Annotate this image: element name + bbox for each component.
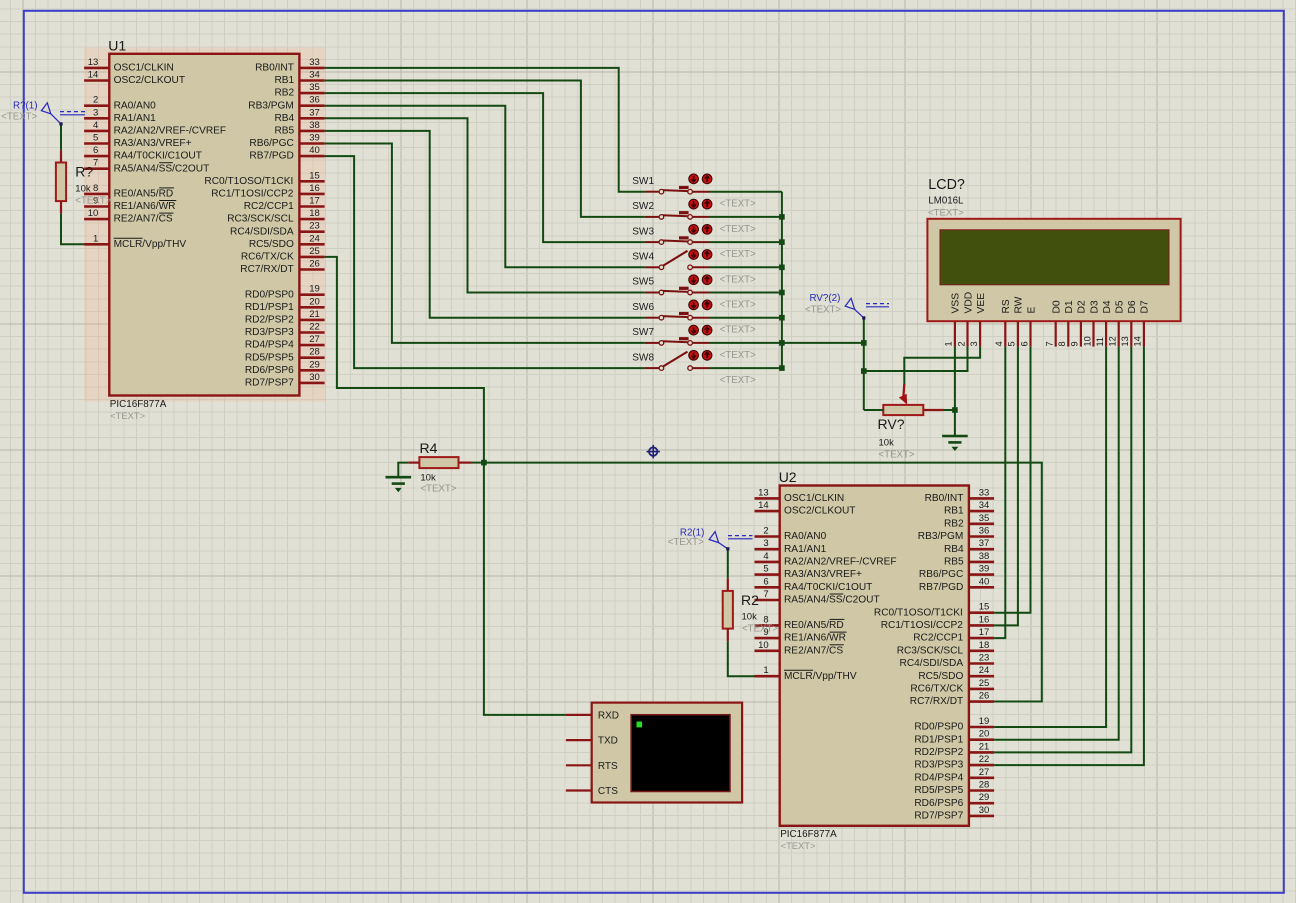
LCD pin 5 RW bbox=[1007, 296, 1025, 346]
wire LCD D7 to U2 RD3 bbox=[994, 347, 1144, 765]
svg-text:7: 7 bbox=[93, 158, 98, 169]
svg-text:27: 27 bbox=[979, 767, 990, 778]
svg-text:39: 39 bbox=[309, 133, 320, 144]
svg-text:SW5: SW5 bbox=[632, 277, 654, 288]
U1 pin 17 RC2/CCP1 bbox=[244, 196, 325, 213]
selection highlight around U1 bbox=[84, 48, 326, 402]
junction bus SW6 bbox=[779, 315, 785, 321]
U1 pin 20 RD1/PSP1 bbox=[245, 296, 325, 313]
U1 pin 40 RB7/PGD bbox=[249, 145, 324, 162]
svg-text:SW7: SW7 bbox=[632, 327, 654, 338]
svg-text:RB4: RB4 bbox=[944, 544, 964, 555]
svg-text:RC7/RX/DT: RC7/RX/DT bbox=[240, 264, 293, 275]
svg-text:<TEXT>: <TEXT> bbox=[420, 484, 456, 495]
svg-text:<TEXT>: <TEXT> bbox=[720, 350, 756, 361]
junction bus SW8 bbox=[779, 365, 785, 371]
svg-text:D5: D5 bbox=[1115, 300, 1126, 313]
wire resistor R2 bottom to U2 MCLR pin 1 bbox=[728, 641, 755, 676]
U1 pin 30 RD7/PSP7 bbox=[245, 372, 325, 389]
LCD pin 1 VSS bbox=[944, 293, 962, 347]
junction bus SW2 bbox=[779, 214, 785, 220]
wire R4 left to ground bbox=[398, 463, 408, 478]
svg-text:RE1/AN6/WR: RE1/AN6/WR bbox=[784, 633, 846, 644]
wire bus to RV? node bbox=[782, 342, 864, 344]
terminal pin TXD bbox=[566, 736, 618, 747]
svg-text:RD0/PSP0: RD0/PSP0 bbox=[245, 289, 294, 300]
svg-text:D4: D4 bbox=[1102, 300, 1113, 313]
U2 pin 3 RA1/AN1 bbox=[755, 538, 827, 555]
wire resistor R? bottom to U1 MCLR pin 1 bbox=[61, 214, 84, 245]
svg-text:26: 26 bbox=[309, 259, 320, 270]
wire U1 RB2 to SW3 bbox=[325, 93, 645, 242]
svg-text:25: 25 bbox=[309, 246, 320, 257]
svg-text:VDD: VDD bbox=[963, 292, 974, 314]
svg-text:CTS: CTS bbox=[598, 786, 618, 797]
U1 pin 6 RA4/T0CKI/C1OUT bbox=[84, 145, 202, 162]
U1 pin 21 RD2/PSP2 bbox=[245, 309, 325, 326]
svg-text:10: 10 bbox=[88, 208, 99, 219]
switch SW7 bbox=[632, 325, 756, 361]
U2 pin 30 RD7/PSP7 bbox=[914, 805, 994, 822]
svg-text:RTS: RTS bbox=[598, 761, 618, 772]
svg-text:MCLR/Vpp/THV: MCLR/Vpp/THV bbox=[784, 671, 857, 682]
svg-text:D1: D1 bbox=[1064, 300, 1075, 313]
svg-text:RB2: RB2 bbox=[274, 88, 294, 99]
svg-text:OSC2/CLKOUT: OSC2/CLKOUT bbox=[114, 75, 185, 86]
wire LCD VDD to RV? node bbox=[864, 347, 968, 371]
LCD pin 2 VDD bbox=[956, 292, 974, 347]
svg-text:RC4/SDI/SDA: RC4/SDI/SDA bbox=[900, 658, 964, 669]
svg-text:<TEXT>: <TEXT> bbox=[742, 623, 778, 634]
svg-text:MCLR/Vpp/THV: MCLR/Vpp/THV bbox=[114, 239, 187, 250]
svg-text:RA1/AN1: RA1/AN1 bbox=[114, 113, 157, 124]
junction bus SW5 bbox=[779, 290, 785, 296]
U2 pin 39 RB6/PGC bbox=[919, 564, 994, 581]
svg-text:RD1/PSP1: RD1/PSP1 bbox=[245, 302, 294, 313]
wire SW7 to bus bbox=[709, 342, 782, 344]
junction TX node at R4 bbox=[481, 460, 487, 466]
svg-text:14: 14 bbox=[1133, 336, 1143, 346]
U2 pin 28 RD5/PSP5 bbox=[914, 780, 994, 797]
svg-text:OSC2/CLKOUT: OSC2/CLKOUT bbox=[784, 506, 855, 517]
svg-text:<TEXT>: <TEXT> bbox=[110, 410, 145, 421]
svg-text:37: 37 bbox=[309, 107, 320, 118]
svg-text:RC3/SCK/SCL: RC3/SCK/SCL bbox=[227, 214, 294, 225]
U1 pin 3 RA1/AN1 bbox=[84, 107, 156, 124]
svg-text:7: 7 bbox=[763, 589, 768, 600]
U2 pin 16 RC1/T1OSI/CCP2 bbox=[881, 614, 994, 631]
svg-text:RB3/PGM: RB3/PGM bbox=[918, 531, 964, 542]
svg-text:RC1/T1OSI/CCP2: RC1/T1OSI/CCP2 bbox=[211, 189, 294, 200]
svg-text:RD1/PSP1: RD1/PSP1 bbox=[914, 734, 963, 745]
svg-text:U1: U1 bbox=[108, 37, 126, 53]
svg-text:39: 39 bbox=[979, 564, 990, 575]
svg-text:D6: D6 bbox=[1127, 300, 1138, 313]
svg-text:RD3/PSP3: RD3/PSP3 bbox=[245, 327, 294, 338]
U1 pin 37 RB4 bbox=[274, 107, 324, 124]
svg-text:RA5/AN4/SS/C2OUT: RA5/AN4/SS/C2OUT bbox=[114, 163, 210, 174]
svg-text:RA3/AN3/VREF+: RA3/AN3/VREF+ bbox=[784, 569, 862, 580]
svg-text:5: 5 bbox=[1007, 341, 1017, 346]
junction RV? node at VDD row bbox=[861, 368, 867, 374]
voltage probe R2(1) bbox=[668, 527, 753, 550]
svg-text:35: 35 bbox=[309, 82, 320, 93]
switch SW3 bbox=[632, 224, 756, 260]
svg-text:33: 33 bbox=[309, 57, 320, 68]
U1 pin 4 RA2/AN2/VREF-/CVREF bbox=[84, 120, 226, 137]
svg-text:27: 27 bbox=[309, 334, 320, 345]
svg-text:RB0/INT: RB0/INT bbox=[925, 493, 964, 504]
U2 pin 5 RA3/AN3/VREF+ bbox=[755, 564, 863, 581]
switch SW4 bbox=[632, 250, 756, 286]
svg-text:R4: R4 bbox=[420, 440, 438, 456]
svg-text:RB0/INT: RB0/INT bbox=[255, 63, 294, 74]
junction bus SW7 bbox=[779, 340, 785, 346]
svg-text:SW6: SW6 bbox=[632, 302, 654, 313]
svg-text:SW1: SW1 bbox=[632, 176, 654, 187]
svg-text:22: 22 bbox=[979, 754, 990, 765]
LCD pin 13 D6 bbox=[1120, 300, 1138, 347]
svg-text:<TEXT>: <TEXT> bbox=[1, 111, 37, 122]
svg-text:RD0/PSP0: RD0/PSP0 bbox=[914, 722, 963, 733]
U1 pin 23 RC4/SDI/SDA bbox=[230, 221, 325, 238]
microcontroller U1 PIC16F877A body bbox=[108, 37, 299, 421]
svg-text:<TEXT>: <TEXT> bbox=[781, 840, 816, 851]
svg-text:15: 15 bbox=[309, 170, 320, 181]
svg-text:RE1/AN6/WR: RE1/AN6/WR bbox=[114, 201, 176, 212]
terminal pin CTS bbox=[566, 786, 618, 797]
potentiometer RV? bbox=[878, 384, 945, 461]
U2 pin 23 RC4/SDI/SDA bbox=[900, 653, 995, 670]
svg-text:RB5: RB5 bbox=[274, 126, 294, 137]
svg-text:R?(1): R?(1) bbox=[13, 100, 38, 111]
U2 pin 33 RB0/INT bbox=[925, 487, 994, 504]
svg-text:RS: RS bbox=[1001, 299, 1012, 313]
svg-text:10k: 10k bbox=[75, 183, 91, 194]
U1 pin 10 RE2/AN7/CS bbox=[84, 208, 173, 225]
U1 pin 14 OSC2/CLKOUT bbox=[84, 70, 185, 87]
svg-text:RB7/PGD: RB7/PGD bbox=[249, 151, 293, 162]
wire U1 RB5 to SW6 bbox=[325, 131, 645, 318]
svg-text:TXD: TXD bbox=[598, 736, 618, 747]
U2 pin 36 RB3/PGM bbox=[918, 526, 994, 543]
svg-text:22: 22 bbox=[309, 322, 320, 333]
U2 pin 26 RC7/RX/DT bbox=[910, 691, 994, 708]
svg-text:4: 4 bbox=[763, 551, 768, 562]
svg-text:10: 10 bbox=[758, 640, 769, 651]
svg-text:40: 40 bbox=[309, 145, 320, 156]
svg-text:RD6/PSP6: RD6/PSP6 bbox=[914, 798, 963, 809]
LCD pin 6 E bbox=[1019, 307, 1037, 347]
U1 pin 34 RB1 bbox=[274, 70, 324, 87]
U1 pin 1 MCLR/Vpp/THV bbox=[84, 233, 186, 250]
svg-text:38: 38 bbox=[309, 120, 320, 131]
svg-text:18: 18 bbox=[309, 208, 320, 219]
svg-text:<TEXT>: <TEXT> bbox=[720, 375, 756, 386]
svg-text:16: 16 bbox=[309, 183, 320, 194]
svg-text:RA0/AN0: RA0/AN0 bbox=[784, 531, 827, 542]
svg-text:4: 4 bbox=[93, 120, 98, 131]
U1 pin 22 RD3/PSP3 bbox=[245, 322, 325, 339]
voltage probe R?(1) bbox=[1, 100, 85, 125]
wire LCD RW to U2 pin row bbox=[994, 347, 1018, 626]
U2 pin 2 RA0/AN0 bbox=[755, 526, 827, 543]
svg-text:17: 17 bbox=[309, 196, 320, 207]
svg-text:17: 17 bbox=[979, 627, 990, 638]
svg-text:RC6/TX/CK: RC6/TX/CK bbox=[241, 252, 294, 263]
svg-text:19: 19 bbox=[979, 716, 990, 727]
svg-text:RV?: RV? bbox=[878, 416, 905, 432]
svg-text:RC2/CCP1: RC2/CCP1 bbox=[244, 201, 294, 212]
svg-text:<TEXT>: <TEXT> bbox=[928, 208, 964, 219]
svg-text:RB7/PGD: RB7/PGD bbox=[919, 582, 963, 593]
U2 pin 9 RE1/AN6/WR bbox=[755, 627, 847, 644]
LCD pin 11 D4 bbox=[1095, 300, 1113, 347]
svg-text:RC4/SDI/SDA: RC4/SDI/SDA bbox=[230, 226, 294, 237]
svg-text:RC0/T1OSO/T1CKI: RC0/T1OSO/T1CKI bbox=[204, 176, 293, 187]
svg-text:28: 28 bbox=[309, 347, 320, 358]
switch SW2 bbox=[632, 199, 756, 235]
wire LCD D6 to U2 RD2 bbox=[994, 347, 1131, 753]
svg-text:10: 10 bbox=[1082, 336, 1092, 346]
svg-text:1: 1 bbox=[763, 665, 768, 676]
wire LCD D4 to U2 RD0 bbox=[994, 347, 1106, 727]
svg-text:RE0/AN5/RD: RE0/AN5/RD bbox=[114, 189, 174, 200]
U1 pin 16 RC1/T1OSI/CCP2 bbox=[211, 183, 324, 200]
wire SW3 to bus bbox=[709, 241, 782, 243]
svg-text:RD5/PSP5: RD5/PSP5 bbox=[245, 352, 294, 363]
svg-text:18: 18 bbox=[979, 640, 990, 651]
svg-text:36: 36 bbox=[979, 526, 990, 537]
LCD pin 9 D2 bbox=[1070, 300, 1088, 347]
svg-text:20: 20 bbox=[309, 296, 320, 307]
svg-text:RA0/AN0: RA0/AN0 bbox=[114, 100, 157, 111]
U1 pin 39 RB6/PGC bbox=[249, 133, 324, 150]
svg-text:4: 4 bbox=[994, 341, 1004, 346]
U1 pin 13 OSC1/CLKIN bbox=[84, 57, 174, 74]
svg-text:LM016L: LM016L bbox=[928, 195, 964, 206]
microcontroller U2 PIC16F877A body bbox=[779, 469, 969, 851]
U1 pin 15 RC0/T1OSO/T1CKI bbox=[204, 170, 324, 187]
svg-text:40: 40 bbox=[979, 576, 990, 587]
svg-text:<TEXT>: <TEXT> bbox=[720, 300, 756, 311]
U1 pin 2 RA0/AN0 bbox=[84, 95, 156, 112]
U2 pin 21 RD2/PSP2 bbox=[914, 741, 994, 758]
ground for R4 net bbox=[386, 476, 412, 479]
U2 pin 29 RD6/PSP6 bbox=[914, 792, 994, 809]
wire SW1 to bus bbox=[709, 191, 782, 193]
wire U1 RB3 to SW4 bbox=[325, 106, 645, 268]
svg-text:PIC16F877A: PIC16F877A bbox=[110, 399, 167, 410]
svg-text:3: 3 bbox=[763, 538, 768, 549]
svg-text:<TEXT>: <TEXT> bbox=[805, 305, 841, 316]
svg-text:34: 34 bbox=[979, 500, 990, 511]
wire U1 RB4 to SW5 bbox=[325, 118, 645, 292]
junction bus SW4 bbox=[779, 265, 785, 271]
svg-text:OSC1/CLKIN: OSC1/CLKIN bbox=[114, 63, 174, 74]
terminal pin RXD bbox=[566, 711, 619, 722]
U2 pin 38 RB5 bbox=[944, 551, 994, 568]
wire probe node to resistor R2 top bbox=[727, 549, 729, 579]
svg-text:15: 15 bbox=[979, 602, 990, 613]
svg-text:SW8: SW8 bbox=[632, 352, 654, 363]
svg-text:RB2: RB2 bbox=[944, 518, 964, 529]
U1 pin 18 RC3/SCK/SCL bbox=[227, 208, 324, 225]
svg-text:<TEXT>: <TEXT> bbox=[668, 537, 704, 548]
svg-text:1: 1 bbox=[944, 341, 954, 346]
U2 pin 35 RB2 bbox=[944, 513, 994, 530]
svg-text:21: 21 bbox=[309, 309, 320, 320]
svg-text:23: 23 bbox=[309, 221, 320, 232]
svg-text:3: 3 bbox=[93, 107, 98, 118]
origin marker bbox=[647, 445, 660, 458]
U2 pin 34 RB1 bbox=[944, 500, 994, 517]
U2 pin 6 RA4/T0CKI/C1OUT bbox=[755, 576, 873, 593]
U2 pin 25 RC6/TX/CK bbox=[910, 678, 994, 695]
svg-text:13: 13 bbox=[758, 487, 769, 498]
wire R4 right to TX node bbox=[472, 462, 484, 464]
svg-text:6: 6 bbox=[763, 576, 768, 587]
svg-text:RD7/PSP7: RD7/PSP7 bbox=[245, 378, 294, 389]
svg-text:<TEXT>: <TEXT> bbox=[720, 274, 756, 285]
svg-text:RD2/PSP2: RD2/PSP2 bbox=[914, 747, 963, 758]
svg-text:13: 13 bbox=[1120, 336, 1130, 346]
svg-text:2: 2 bbox=[956, 341, 966, 346]
U1 pin 35 RB2 bbox=[274, 82, 324, 99]
LCD pin 12 D5 bbox=[1108, 300, 1126, 347]
switch SW6 bbox=[632, 300, 756, 336]
U1 pin 36 RB3/PGM bbox=[248, 95, 324, 112]
wire SW4 to bus bbox=[709, 266, 782, 268]
svg-text:10k: 10k bbox=[420, 472, 436, 483]
svg-text:RD5/PSP5: RD5/PSP5 bbox=[914, 785, 963, 796]
U1 pin 27 RD4/PSP4 bbox=[245, 334, 325, 351]
svg-text:16: 16 bbox=[979, 614, 990, 625]
wire SW6 to bus bbox=[709, 317, 782, 319]
svg-text:RD4/PSP4: RD4/PSP4 bbox=[245, 340, 294, 351]
svg-text:25: 25 bbox=[979, 678, 990, 689]
svg-text:24: 24 bbox=[309, 233, 320, 244]
wire LCD D5 to U2 RD1 bbox=[994, 347, 1119, 740]
wire SW2 to bus bbox=[709, 216, 782, 218]
U1 pin 7 RA5/AN4/SS/C2OUT bbox=[84, 158, 209, 175]
svg-text:RD3/PSP3: RD3/PSP3 bbox=[914, 760, 963, 771]
svg-text:RA5/AN4/SS/C2OUT: RA5/AN4/SS/C2OUT bbox=[784, 595, 880, 606]
wire LCD E to U2 pin row bbox=[994, 347, 1030, 613]
switch SW1 bbox=[632, 174, 756, 210]
svg-text:34: 34 bbox=[309, 70, 320, 81]
terminal pin RTS bbox=[566, 761, 618, 772]
svg-text:RA4/T0CKI/C1OUT: RA4/T0CKI/C1OUT bbox=[114, 151, 202, 162]
svg-text:RE2/AN7/CS: RE2/AN7/CS bbox=[784, 645, 843, 656]
wire U1 RB7 to SW8 bbox=[325, 156, 645, 368]
svg-text:<TEXT>: <TEXT> bbox=[720, 224, 756, 235]
svg-text:RB1: RB1 bbox=[944, 506, 964, 517]
switch SW5 bbox=[632, 275, 756, 311]
svg-text:LCD?: LCD? bbox=[928, 177, 965, 193]
wire probe node to resistor R? top bbox=[60, 124, 62, 150]
svg-text:RB6/PGC: RB6/PGC bbox=[919, 569, 963, 580]
svg-text:9: 9 bbox=[1070, 341, 1080, 346]
svg-text:23: 23 bbox=[979, 653, 990, 664]
U1 pin 9 RE1/AN6/WR bbox=[84, 196, 176, 213]
wire SW8 to bus bbox=[709, 367, 782, 369]
svg-text:14: 14 bbox=[88, 70, 99, 81]
svg-text:8: 8 bbox=[1057, 341, 1067, 346]
svg-text:D2: D2 bbox=[1077, 300, 1088, 313]
U2 pin 24 RC5/SDO bbox=[918, 665, 994, 682]
svg-text:VSS: VSS bbox=[951, 293, 962, 314]
U2 pin 7 RA5/AN4/SS/C2OUT bbox=[755, 589, 880, 606]
svg-text:6: 6 bbox=[93, 145, 98, 156]
svg-text:30: 30 bbox=[979, 805, 990, 816]
voltage probe RV?(2) bbox=[805, 293, 889, 320]
svg-text:36: 36 bbox=[309, 95, 320, 106]
svg-text:5: 5 bbox=[93, 133, 98, 144]
svg-text:7: 7 bbox=[1045, 341, 1055, 346]
LCD pin 10 D3 bbox=[1082, 300, 1100, 347]
svg-text:20: 20 bbox=[979, 729, 990, 740]
junction bus SW3 bbox=[779, 239, 785, 245]
svg-text:2: 2 bbox=[763, 526, 768, 537]
U2 pin 13 OSC1/CLKIN bbox=[755, 487, 845, 504]
switch SW8 bbox=[632, 350, 756, 386]
U2 pin 27 RD4/PSP4 bbox=[914, 767, 994, 784]
svg-text:RC7/RX/DT: RC7/RX/DT bbox=[910, 696, 963, 707]
svg-text:RB6/PGC: RB6/PGC bbox=[249, 138, 293, 149]
svg-text:SW4: SW4 bbox=[632, 252, 654, 263]
wire TX node down to terminal RXD bbox=[484, 463, 566, 715]
svg-text:29: 29 bbox=[309, 359, 320, 370]
svg-text:37: 37 bbox=[979, 538, 990, 549]
ground for RV? net bbox=[942, 435, 968, 438]
svg-text:29: 29 bbox=[979, 792, 990, 803]
svg-text:21: 21 bbox=[979, 741, 990, 752]
svg-text:8: 8 bbox=[93, 183, 98, 194]
LCD display LCD? LM016L body bbox=[927, 177, 1180, 321]
wire LCD RS to U2 pin row bbox=[994, 347, 1005, 638]
svg-text:RB1: RB1 bbox=[274, 75, 294, 86]
wire RV? right to ground and LCD VSS bbox=[944, 347, 958, 436]
svg-text:1: 1 bbox=[93, 233, 98, 244]
resistor R2 bbox=[723, 578, 779, 641]
wire SW5 to bus bbox=[709, 292, 782, 294]
U2 pin 1 MCLR/Vpp/THV bbox=[755, 665, 857, 682]
svg-text:6: 6 bbox=[1019, 341, 1029, 346]
svg-text:RC3/SCK/SCL: RC3/SCK/SCL bbox=[897, 645, 964, 656]
svg-text:RXD: RXD bbox=[598, 711, 619, 722]
svg-text:<TEXT>: <TEXT> bbox=[720, 325, 756, 336]
svg-text:RW: RW bbox=[1014, 296, 1025, 313]
svg-text:RD4/PSP4: RD4/PSP4 bbox=[914, 772, 963, 783]
U2 pin 40 RB7/PGD bbox=[919, 576, 994, 593]
U2 pin 15 RC0/T1OSO/T1CKI bbox=[874, 602, 994, 619]
svg-text:RC5/SDO: RC5/SDO bbox=[918, 671, 963, 682]
svg-text:U2: U2 bbox=[779, 469, 797, 485]
svg-text:RA1/AN1: RA1/AN1 bbox=[784, 544, 827, 555]
U1 pin 8 RE0/AN5/RD bbox=[84, 183, 174, 200]
svg-text:R2: R2 bbox=[741, 592, 759, 608]
svg-text:24: 24 bbox=[979, 665, 990, 676]
svg-text:14: 14 bbox=[758, 500, 769, 511]
U1 pin 5 RA3/AN3/VREF+ bbox=[84, 133, 192, 150]
U2 pin 17 RC2/CCP1 bbox=[913, 627, 994, 644]
svg-text:R?: R? bbox=[75, 164, 93, 180]
wire U1 RC6/TX pin 25 down to TX node bbox=[325, 257, 484, 463]
svg-text:RA3/AN3/VREF+: RA3/AN3/VREF+ bbox=[114, 138, 192, 149]
svg-text:33: 33 bbox=[979, 487, 990, 498]
svg-text:RD7/PSP7: RD7/PSP7 bbox=[914, 811, 963, 822]
